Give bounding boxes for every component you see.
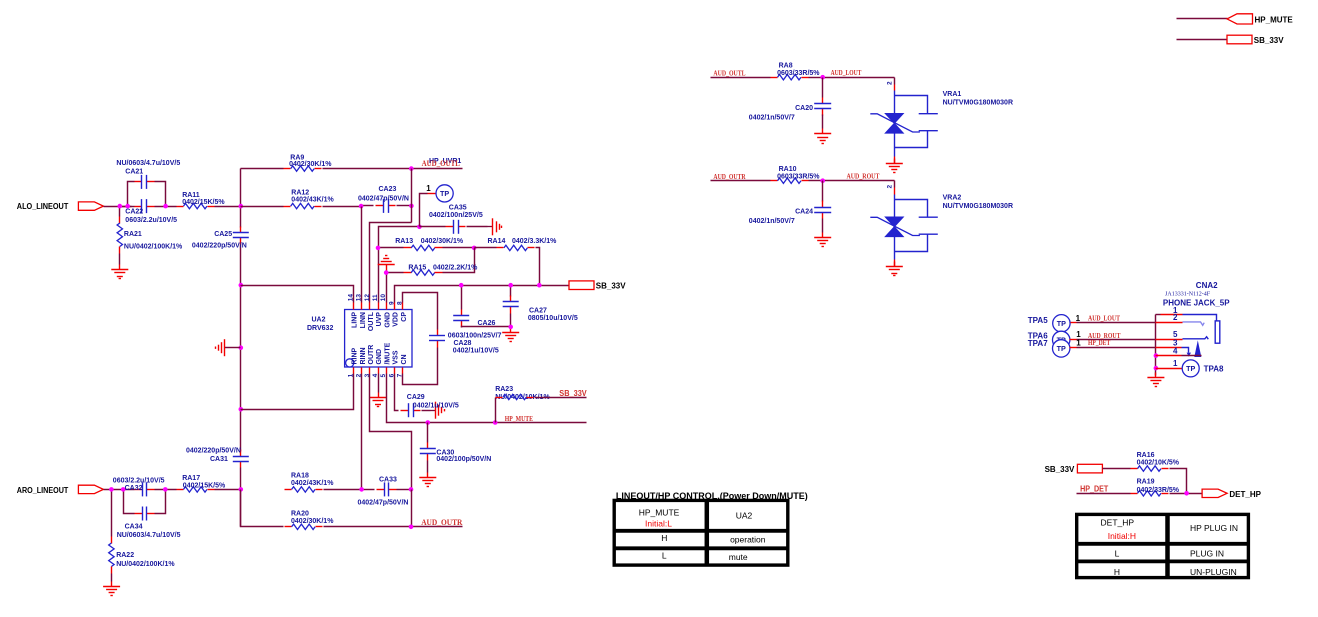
svg-text:12: 12 <box>364 294 371 302</box>
svg-text:CP: CP <box>401 312 408 322</box>
svg-text:TP: TP <box>1057 319 1066 328</box>
svg-text:CA32: CA32 <box>125 485 143 492</box>
svg-text:RA21: RA21 <box>124 231 142 238</box>
svg-text:DET_HP: DET_HP <box>1101 518 1135 528</box>
svg-text:UVP: UVP <box>376 312 383 327</box>
svg-text:RA13: RA13 <box>395 238 413 245</box>
svg-text:TP: TP <box>1057 344 1066 353</box>
svg-text:0402/30K/1%: 0402/30K/1% <box>421 238 464 245</box>
svg-text:AUD_OUTR: AUD_OUTR <box>421 518 462 527</box>
svg-text:L: L <box>1115 549 1120 559</box>
svg-text:RA14: RA14 <box>488 238 506 245</box>
svg-text:CA25: CA25 <box>214 231 232 238</box>
svg-text:operation: operation <box>730 534 766 544</box>
svg-text:CA28: CA28 <box>454 340 472 347</box>
svg-text:RA17: RA17 <box>182 475 200 482</box>
svg-text:0402/10K/5%: 0402/10K/5% <box>1137 460 1180 467</box>
svg-text:/MUTE: /MUTE <box>384 342 391 364</box>
svg-text:VSS: VSS <box>393 350 400 364</box>
svg-text:mute: mute <box>729 552 748 562</box>
svg-text:PLUG IN: PLUG IN <box>1190 549 1224 559</box>
svg-text:AUD_OUTL: AUD_OUTL <box>422 159 461 168</box>
svg-text:0402/100n/25V/5: 0402/100n/25V/5 <box>429 212 483 219</box>
svg-text:HP_MUTE: HP_MUTE <box>505 415 534 423</box>
svg-text:RINP: RINP <box>352 347 359 364</box>
svg-text:0603/33R/5%: 0603/33R/5% <box>777 174 820 181</box>
svg-text:0603/100n/25V/7: 0603/100n/25V/7 <box>448 333 502 340</box>
svg-text:CA21: CA21 <box>125 168 143 175</box>
svg-text:0402/2.2K/1%: 0402/2.2K/1% <box>433 264 478 271</box>
svg-text:CA31: CA31 <box>210 456 228 463</box>
svg-text:UA2: UA2 <box>312 317 326 324</box>
svg-text:0805/10u/10V/5: 0805/10u/10V/5 <box>528 315 578 322</box>
svg-text:0402/47p/50V/N: 0402/47p/50V/N <box>358 500 409 507</box>
svg-text:RA18: RA18 <box>291 473 309 480</box>
svg-text:RA8: RA8 <box>779 63 793 70</box>
svg-text:RA11: RA11 <box>182 192 200 199</box>
svg-text:UA2: UA2 <box>736 510 753 520</box>
svg-text:0603/2.2u/10V/5: 0603/2.2u/10V/5 <box>113 477 165 484</box>
svg-text:CNA2: CNA2 <box>1196 281 1218 290</box>
svg-text:TP: TP <box>440 189 449 198</box>
svg-text:TPA8: TPA8 <box>1204 365 1224 374</box>
svg-text:0402/220p/50V/N: 0402/220p/50V/N <box>192 243 247 250</box>
svg-text:RA19: RA19 <box>1137 478 1155 485</box>
svg-text:1: 1 <box>1076 339 1081 348</box>
svg-text:2: 2 <box>886 185 893 189</box>
svg-text:H: H <box>1114 567 1120 577</box>
svg-text:RA23: RA23 <box>495 386 513 393</box>
svg-text:0402/1n/50V/7: 0402/1n/50V/7 <box>749 115 795 122</box>
svg-text:0402/1u/10V/5: 0402/1u/10V/5 <box>453 348 499 355</box>
svg-text:SB_33V: SB_33V <box>596 281 626 290</box>
svg-text:H: H <box>661 533 667 543</box>
svg-text:2: 2 <box>886 81 893 85</box>
svg-text:0402/30K/1%: 0402/30K/1% <box>291 518 334 525</box>
svg-text:0402/15K/5%: 0402/15K/5% <box>183 483 226 490</box>
svg-text:DET_HP: DET_HP <box>1229 490 1261 499</box>
svg-text:CA27: CA27 <box>529 307 547 314</box>
svg-text:13: 13 <box>356 294 363 302</box>
svg-text:CA22: CA22 <box>125 209 143 216</box>
svg-text:0402/1u/10V/5: 0402/1u/10V/5 <box>413 402 459 409</box>
svg-text:GND: GND <box>384 312 391 328</box>
svg-text:0402/15K/5%: 0402/15K/5% <box>182 199 225 206</box>
svg-text:0402/33R/5%: 0402/33R/5% <box>1137 487 1180 494</box>
svg-text:RA12: RA12 <box>291 189 309 196</box>
svg-text:0603/33R/5%: 0603/33R/5% <box>777 70 820 77</box>
svg-text:VDD: VDD <box>393 312 400 327</box>
svg-text:AUD_ROUT: AUD_ROUT <box>847 173 880 181</box>
svg-text:1: 1 <box>1173 359 1178 368</box>
svg-text:CA26: CA26 <box>478 320 496 327</box>
svg-text:TPA7: TPA7 <box>1028 339 1048 348</box>
svg-text:0402/100p/50V/N: 0402/100p/50V/N <box>436 456 491 463</box>
svg-text:SB_33V: SB_33V <box>1045 465 1075 474</box>
svg-text:CN: CN <box>401 354 408 364</box>
svg-text:1: 1 <box>426 184 431 193</box>
svg-text:OUTL: OUTL <box>368 311 375 331</box>
svg-text:VRA1: VRA1 <box>943 91 962 98</box>
svg-text:RA20: RA20 <box>291 511 309 518</box>
svg-text:AUD_OUTR: AUD_OUTR <box>713 173 746 181</box>
svg-text:RA22: RA22 <box>116 552 134 559</box>
svg-text:CA23: CA23 <box>379 186 397 193</box>
svg-text:CA29: CA29 <box>407 394 425 401</box>
svg-text:RA16: RA16 <box>1137 452 1155 459</box>
svg-text:NU/0402/100K/1%: NU/0402/100K/1% <box>116 561 175 568</box>
svg-text:0603/2.2u/10V/5: 0603/2.2u/10V/5 <box>125 217 177 224</box>
svg-text:SB_33V: SB_33V <box>559 389 587 398</box>
svg-text:NU/0603/4.7u/10V/5: NU/0603/4.7u/10V/5 <box>117 532 181 539</box>
svg-text:LINP: LINP <box>352 312 359 328</box>
svg-text:Initial:L: Initial:L <box>645 519 672 529</box>
svg-text:NU/TVM0G180M030R: NU/TVM0G180M030R <box>943 203 1013 210</box>
svg-text:UN-PLUGIN: UN-PLUGIN <box>1190 567 1237 577</box>
svg-text:CA20: CA20 <box>795 105 813 112</box>
svg-text:TPA5: TPA5 <box>1028 316 1048 325</box>
svg-text:0402/220p/50V/N: 0402/220p/50V/N <box>186 448 241 455</box>
svg-text:DRV632: DRV632 <box>307 325 333 332</box>
svg-text:ARO_LINEOUT: ARO_LINEOUT <box>17 486 69 495</box>
svg-text:SB_33V: SB_33V <box>1254 36 1284 45</box>
svg-text:CA33: CA33 <box>379 476 397 483</box>
svg-text:NU/TVM0G180M030R: NU/TVM0G180M030R <box>943 100 1013 107</box>
svg-text:RINN: RINN <box>360 347 367 364</box>
svg-text:JA13331-N112-4F: JA13331-N112-4F <box>1165 291 1211 297</box>
svg-text:0402/30K/1%: 0402/30K/1% <box>289 161 332 168</box>
svg-text:HP_MUTE: HP_MUTE <box>1255 15 1294 24</box>
svg-text:CA34: CA34 <box>125 524 143 531</box>
svg-text:AUD_OUTL: AUD_OUTL <box>713 69 745 77</box>
svg-text:TP: TP <box>1186 364 1195 373</box>
svg-text:RA15: RA15 <box>408 264 426 271</box>
svg-text:1: 1 <box>1076 314 1081 323</box>
svg-text:Initial:H: Initial:H <box>1108 531 1136 541</box>
svg-text:HP_DET: HP_DET <box>1080 485 1108 494</box>
svg-text:OUTR: OUTR <box>368 345 375 365</box>
svg-text:NU/0402/100K/1%: NU/0402/100K/1% <box>124 243 183 250</box>
svg-text:AUD_LOUT: AUD_LOUT <box>831 69 862 77</box>
svg-text:LINN: LINN <box>360 312 367 328</box>
svg-text:L: L <box>662 551 667 561</box>
svg-text:GND: GND <box>376 349 383 365</box>
svg-text:0402/3.3K/1%: 0402/3.3K/1% <box>512 238 557 245</box>
svg-text:4: 4 <box>1173 347 1178 356</box>
svg-text:RA10: RA10 <box>779 166 797 173</box>
svg-text:HP PLUG IN: HP PLUG IN <box>1190 523 1238 533</box>
svg-text:CA24: CA24 <box>795 209 813 216</box>
svg-text:0402/43K/1%: 0402/43K/1% <box>291 480 334 487</box>
svg-text:2: 2 <box>1173 313 1178 322</box>
svg-text:HP_MUTE: HP_MUTE <box>639 507 680 517</box>
svg-text:NU/0603/4.7u/10V/5: NU/0603/4.7u/10V/5 <box>116 160 180 167</box>
svg-text:ALO_LINEOUT: ALO_LINEOUT <box>17 202 69 211</box>
svg-text:0402/43K/1%: 0402/43K/1% <box>291 197 334 204</box>
svg-text:CA35: CA35 <box>449 205 467 212</box>
svg-text:VRA2: VRA2 <box>943 195 962 202</box>
svg-text:0402/1n/50V/7: 0402/1n/50V/7 <box>749 218 795 225</box>
svg-text:0402/47p/50V/N: 0402/47p/50V/N <box>358 195 409 202</box>
svg-text:AUD_LOUT: AUD_LOUT <box>1088 314 1120 322</box>
svg-text:HP_DET: HP_DET <box>1088 339 1110 347</box>
